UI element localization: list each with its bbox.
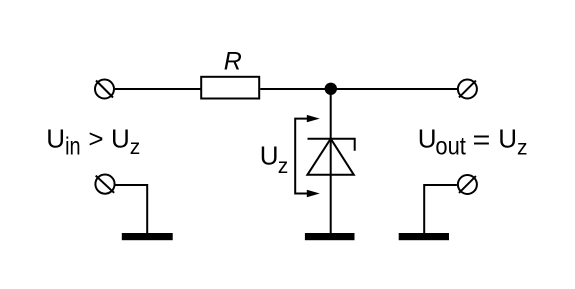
ground (input) <box>122 233 173 240</box>
wire node A to output terminal <box>330 88 457 90</box>
terminal input - <box>95 175 114 194</box>
Uz measurement bracket <box>295 119 308 194</box>
svg-text:in: in <box>65 133 81 161</box>
svg-text:z: z <box>278 155 289 178</box>
terminal output + <box>458 80 477 99</box>
bracket arrowhead top <box>307 115 320 122</box>
terminal output - <box>458 175 477 194</box>
svg-text:>: > <box>88 123 103 153</box>
wire output- to ground <box>424 185 457 234</box>
svg-text:z: z <box>517 137 528 160</box>
node A junction dot <box>325 83 337 95</box>
svg-text:U: U <box>498 124 517 154</box>
terminal input + <box>95 80 114 99</box>
wire resistor to node A <box>260 88 331 90</box>
svg-text:=: = <box>473 124 491 155</box>
svg-text:out: out <box>435 132 466 160</box>
wire input+ to resistor <box>115 88 202 90</box>
svg-text:U: U <box>260 141 279 171</box>
svg-text:R: R <box>224 48 242 76</box>
ground (zener branch) <box>305 233 355 240</box>
zener diode V1 anode triangle <box>307 139 353 175</box>
wire node A down through zener to ground <box>330 89 332 234</box>
bracket arrowhead bottom <box>307 190 320 197</box>
svg-text:U: U <box>418 124 437 154</box>
svg-text:U: U <box>46 123 65 153</box>
zener diode V1 cathode bar with hook <box>308 139 355 151</box>
resistor R <box>201 77 259 99</box>
svg-text:z: z <box>130 136 141 159</box>
wire input- to ground <box>116 185 148 234</box>
svg-text:U: U <box>111 123 130 153</box>
ground (output) <box>399 233 449 240</box>
